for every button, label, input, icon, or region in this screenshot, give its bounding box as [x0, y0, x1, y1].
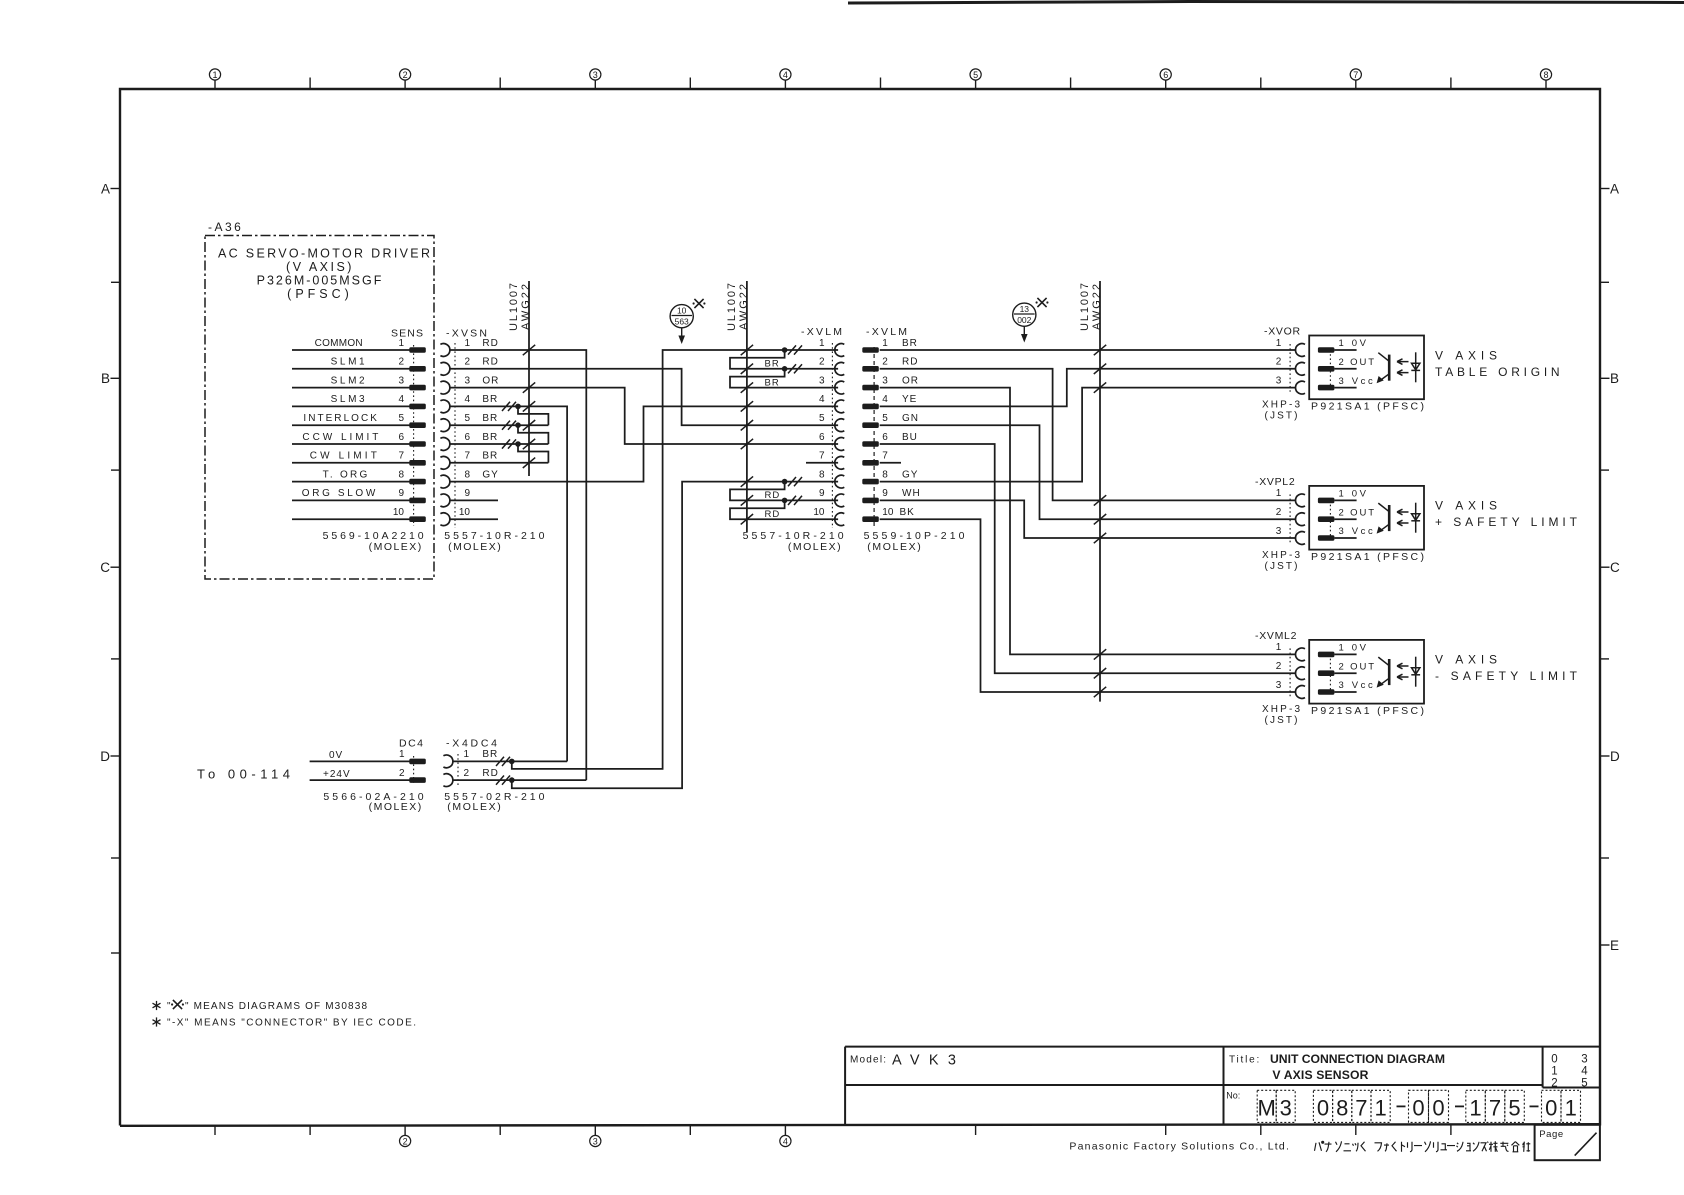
svg-text:0: 0 — [1545, 1096, 1557, 1121]
bottom border tick marks — [215, 1126, 1451, 1136]
svg-text:BK: BK — [900, 507, 915, 518]
svg-text:D: D — [1610, 749, 1620, 764]
-XVML2 body dotted line — [1289, 648, 1291, 698]
svg-text:8: 8 — [819, 469, 825, 480]
DC4 pin 1 contact bar — [409, 759, 426, 765]
left grid label C — [100, 560, 120, 575]
sensor -XVOR light arrows — [1397, 359, 1409, 376]
svg-text:GY: GY — [902, 469, 918, 480]
svg-text:10: 10 — [677, 306, 687, 316]
svg-text:3 Vcc: 3 Vcc — [1339, 680, 1374, 691]
DC4 0V wire — [310, 760, 410, 762]
svg-text:1: 1 — [1276, 488, 1282, 499]
sensor -XVPL2 pin 2 bar and stub — [1318, 516, 1335, 522]
cable label UL1007 AWG22 #3 — [1079, 283, 1103, 331]
svg-text:2: 2 — [403, 1136, 408, 1146]
reference mark ※ #2 — [1036, 298, 1049, 307]
svg-text:No:: No: — [1226, 1091, 1240, 1101]
svg-text:AWG22: AWG22 — [1091, 284, 1103, 330]
svg-text:7: 7 — [464, 451, 470, 462]
stub wire XVSN-9 — [450, 499, 498, 501]
svg-text:7: 7 — [1353, 70, 1358, 80]
svg-text:A: A — [101, 181, 110, 196]
svg-text:8: 8 — [398, 469, 404, 480]
wire XVSN-7 BR — [450, 462, 549, 464]
svg-text:BR: BR — [482, 451, 498, 462]
-XVLM plug pin 8 contact bar — [862, 479, 879, 485]
svg-text:P921SA1 (PFSC): P921SA1 (PFSC) — [1311, 705, 1424, 717]
SENS pin 1 signal wire — [292, 349, 410, 351]
-XVOR connector type XHP-3 (JST) — [1262, 399, 1300, 421]
stub wire XVLM-7 plug — [880, 462, 901, 464]
svg-text:563: 563 — [675, 317, 689, 327]
jumper hook XVLM 9-10 RD — [730, 500, 838, 519]
-XVLM receptacle pin 6 arc — [835, 438, 844, 451]
page box — [1535, 1125, 1600, 1160]
svg-text:3: 3 — [593, 70, 598, 80]
scan artifact line top edge — [848, 2, 1684, 4]
svg-text:3: 3 — [819, 375, 825, 386]
svg-text:1: 1 — [1374, 1096, 1386, 1121]
svg-text:SENS: SENS — [391, 328, 423, 340]
svg-text:0V: 0V — [329, 750, 343, 761]
svg-text:4: 4 — [1581, 1066, 1588, 1078]
drawing number dash 2 — [1455, 1105, 1464, 1107]
-XVML2 pin 2 receptacle arc — [1296, 667, 1305, 680]
sensor -XVML2 body dotted line — [1329, 654, 1331, 692]
company name japanese (drawn strokes) — [1315, 1141, 1531, 1152]
jumper hook XVSN 4-5 — [518, 406, 548, 425]
svg-text:9: 9 — [398, 488, 404, 499]
sensor -XVOR pin 3 bar and stub — [1318, 385, 1335, 391]
sensor -XVML2 pin labels 0V OUT Vcc — [1339, 643, 1375, 692]
top grid label circled 4 — [780, 69, 791, 80]
svg-text:AWG22: AWG22 — [520, 284, 532, 330]
svg-text:XHP-3: XHP-3 — [1262, 399, 1300, 410]
wire XVSN-3 OR to XVLM-6 — [450, 388, 838, 444]
reference balloon 13/002 with arrow — [1013, 303, 1036, 342]
driver block AC SERVO-MOTOR DRIVER dash-dot box — [205, 236, 434, 580]
note reference mark glyph — [171, 1000, 184, 1009]
-XVOR pin 1 receptacle arc — [1296, 344, 1305, 357]
right grid label B — [1600, 371, 1619, 386]
svg-text:(MOLEX): (MOLEX) — [788, 541, 841, 553]
svg-text:6: 6 — [398, 432, 404, 443]
svg-text:002: 002 — [1017, 315, 1031, 325]
svg-text:4: 4 — [819, 394, 825, 405]
svg-text:P921SA1 (PFSC): P921SA1 (PFSC) — [1311, 551, 1424, 563]
svg-text:T. ORG: T. ORG — [323, 469, 368, 480]
SENS pin 9 signal wire — [292, 499, 410, 501]
driver block title text — [218, 247, 430, 302]
svg-text:5: 5 — [819, 413, 825, 424]
-XVSN connector body dotted line — [454, 343, 456, 528]
svg-text:XHP-3: XHP-3 — [1262, 704, 1300, 715]
svg-text:2: 2 — [819, 357, 825, 368]
svg-text:CW LIMIT: CW LIMIT — [310, 451, 377, 462]
-XVPL2 pin 3 receptacle arc — [1296, 532, 1305, 545]
svg-text:9: 9 — [464, 488, 470, 499]
svg-text:BR: BR — [482, 432, 498, 443]
svg-text:4: 4 — [398, 394, 404, 405]
drawing number 00 cells — [1409, 1090, 1449, 1122]
jumper hook XVLM 1-2 BR — [730, 350, 838, 369]
sensor -XVPL2 body dotted line — [1329, 500, 1331, 538]
-X4DC4 pin 1 number and color BR — [463, 749, 498, 760]
svg-text:8: 8 — [882, 469, 888, 480]
svg-text:1: 1 — [1276, 338, 1282, 349]
top border tick marks — [215, 78, 1546, 90]
wire XVLM-4 YE to XVOR-2 — [880, 369, 1296, 407]
svg-text:To 00-114: To 00-114 — [197, 767, 290, 782]
sensor -XVPL2 pin 3 bar and stub — [1318, 535, 1335, 541]
-XVLM receptacle pin 1 arc — [835, 344, 844, 357]
sensor -XVML2 phototransistor — [1377, 657, 1390, 688]
left grid label B — [101, 371, 120, 386]
svg-text:3 Vcc: 3 Vcc — [1339, 526, 1374, 537]
svg-text:" MEANS DIAGRAMS OF M30838: " MEANS DIAGRAMS OF M30838 — [185, 1001, 367, 1012]
svg-text:SLM3: SLM3 — [331, 394, 365, 405]
svg-text:RD: RD — [765, 509, 781, 520]
svg-text:RD: RD — [482, 338, 498, 349]
svg-text:(MOLEX): (MOLEX) — [369, 541, 422, 553]
svg-text:": " — [167, 1001, 171, 1012]
svg-text:1: 1 — [882, 338, 888, 349]
wire 0V rail to XVLM-1 — [512, 350, 838, 769]
svg-text:A: A — [1610, 181, 1619, 196]
title block outline — [845, 1047, 1600, 1125]
svg-text:-XVLM: -XVLM — [866, 326, 907, 338]
right grid label C — [1600, 560, 1620, 575]
svg-text:1 0V: 1 0V — [1339, 338, 1367, 349]
-XVLM receptacle pin 3 arc — [835, 381, 844, 394]
sensor -XVPL2 phototransistor — [1377, 503, 1390, 533]
svg-text:9: 9 — [882, 488, 888, 499]
svg-text:Page: Page — [1539, 1129, 1564, 1140]
sensor -XVML2 light arrows — [1397, 663, 1409, 680]
wire XVLM-2 RD to XVPL2-1 — [880, 369, 1296, 501]
-XVSN pin 10 receptacle arc — [440, 513, 449, 526]
wire XVSN-5 BR — [450, 424, 549, 426]
cable bundle line UL1007 AWG22 #1 — [528, 281, 530, 476]
SENS pin 3 signal wire — [292, 387, 410, 389]
SENS pin 2 signal wire — [292, 368, 410, 370]
cable label UL1007 AWG22 #2 — [726, 283, 750, 331]
svg-text:0: 0 — [1412, 1096, 1424, 1121]
SENS part number 5569-10A2210 (MOLEX) — [323, 530, 424, 553]
svg-text:3: 3 — [1276, 526, 1282, 537]
svg-text:RD: RD — [902, 357, 918, 368]
sensor -XVPL2 function text — [1435, 499, 1578, 530]
svg-text:3: 3 — [1280, 1096, 1292, 1121]
-XVLM plug pin 5 contact bar — [862, 422, 879, 428]
SENS pin 7 signal wire — [292, 462, 410, 464]
svg-text:D: D — [100, 749, 110, 764]
-X4DC4 pin 2 number and color RD — [463, 768, 498, 779]
right grid label D — [1600, 749, 1620, 764]
svg-text:6: 6 — [1163, 70, 1168, 80]
SENS pin 6 contact bar — [409, 441, 426, 447]
cable #2 crossing slashes — [741, 345, 753, 525]
-XVSN pin 2 receptacle arc — [440, 362, 449, 375]
wire XVLM-1 BR to XVOR-1 — [880, 349, 1296, 351]
SENS pin 6 signal wire — [292, 443, 410, 445]
-X4DC4 pin 1 arc — [443, 755, 452, 768]
SENS pin 3 contact bar — [409, 385, 426, 391]
svg-text:1 0V: 1 0V — [1339, 489, 1367, 500]
svg-text:6: 6 — [819, 432, 825, 443]
sensor -XVML2 pin 1 bar and stub — [1318, 652, 1335, 658]
left border mid ticks — [111, 282, 120, 953]
svg-text:(MOLEX): (MOLEX) — [369, 801, 422, 813]
jumper hook XVSN 6-7 — [518, 444, 548, 463]
svg-text:8: 8 — [1543, 70, 1548, 80]
svg-text:9: 9 — [819, 488, 825, 499]
svg-text:C: C — [1610, 560, 1620, 575]
-XVSN pin 5 receptacle arc — [440, 419, 449, 432]
drawing number 175 cells — [1466, 1090, 1525, 1122]
-XVLM plug pin 9 contact bar — [862, 498, 879, 504]
svg-text:2: 2 — [882, 357, 888, 368]
svg-text:BR: BR — [482, 413, 498, 424]
svg-text:RD: RD — [765, 490, 781, 501]
-XVSN pin 3 receptacle arc — [440, 381, 449, 394]
svg-text:P921SA1 (PFSC): P921SA1 (PFSC) — [1311, 401, 1424, 413]
svg-text:(V AXIS): (V AXIS) — [286, 260, 354, 274]
svg-text:(MOLEX): (MOLEX) — [448, 541, 501, 553]
svg-text:1: 1 — [398, 338, 404, 349]
-X4DC4 pin 2 wire RD — [453, 779, 586, 781]
svg-text:1 0V: 1 0V — [1339, 643, 1367, 654]
-XVLM receptacle pin 5 arc — [835, 419, 844, 432]
left grid label A — [101, 181, 120, 196]
wire +24V rail to XVLM-8 — [512, 482, 838, 789]
-XVPL2 pin 2 receptacle arc — [1296, 513, 1305, 526]
svg-text:SLM1: SLM1 — [331, 357, 365, 368]
svg-text:2: 2 — [464, 357, 470, 368]
svg-text:1: 1 — [399, 749, 405, 760]
drawing number 0871 cells — [1313, 1090, 1390, 1122]
top grid label circled 2 — [400, 69, 411, 80]
svg-text:3 Vcc: 3 Vcc — [1339, 376, 1374, 387]
svg-text:0: 0 — [1317, 1096, 1329, 1121]
reference mark ※ #1 — [693, 299, 706, 308]
right border mid ticks — [1600, 282, 1609, 858]
-XVSN part number 5557-10R-210 (MOLEX) — [444, 530, 544, 553]
DC4 pin 2 contact bar — [409, 777, 426, 783]
stub wire XVLM-7 — [806, 462, 838, 464]
svg-text:BR: BR — [902, 338, 918, 349]
-XVSN pin 1 receptacle arc — [440, 344, 449, 357]
svg-text:5: 5 — [464, 413, 470, 424]
svg-text:(PFSC): (PFSC) — [287, 287, 353, 301]
svg-text:0: 0 — [1432, 1096, 1444, 1121]
sensor -XVML2 LED — [1411, 657, 1420, 687]
sensor box -XVOR P921SA1 outline — [1309, 336, 1424, 400]
svg-text:SLM2: SLM2 — [331, 375, 365, 386]
sensor box -XVML2 P921SA1 outline — [1309, 640, 1424, 704]
svg-text:-A36: -A36 — [208, 220, 243, 234]
svg-text:2: 2 — [403, 70, 408, 80]
svg-text:XHP-3: XHP-3 — [1262, 550, 1300, 561]
svg-text:2: 2 — [1276, 507, 1282, 518]
top grid label circled 6 — [1160, 69, 1171, 80]
wire XVSN-1 RD to +24V rail — [450, 350, 587, 780]
svg-text:2: 2 — [1276, 661, 1282, 672]
svg-text:3: 3 — [882, 375, 888, 386]
svg-text:GN: GN — [902, 413, 919, 424]
revision digits box — [1551, 1054, 1588, 1090]
sensor -XVPL2 LED — [1411, 503, 1420, 533]
svg-text:DC4: DC4 — [399, 738, 423, 750]
svg-text:BR: BR — [765, 359, 780, 370]
drawing number M3 cells — [1257, 1090, 1295, 1122]
-XVML2 pin 3 receptacle arc — [1296, 686, 1305, 699]
svg-text:OR: OR — [902, 375, 919, 386]
cable #1 crossing slashes — [523, 345, 535, 468]
SENS pin 4 contact bar — [409, 404, 426, 410]
svg-text:AWG22: AWG22 — [738, 284, 750, 330]
wire XVLM-10 BK to XVML2-3 — [880, 519, 1296, 692]
jumper hook XVLM 8-9 RD — [730, 482, 838, 501]
-XVLM plug pin 7 contact bar — [862, 460, 879, 466]
svg-text:+ SAFETY LIMIT: + SAFETY LIMIT — [1435, 515, 1578, 529]
wire XVSN-2 RD to XVLM-5 — [450, 369, 838, 425]
svg-text:2: 2 — [398, 357, 404, 368]
sensor -XVPL2 pin labels 0V OUT Vcc — [1339, 489, 1375, 538]
svg-text:1: 1 — [463, 749, 469, 760]
svg-text:Title:: Title: — [1229, 1055, 1261, 1066]
svg-text:1: 1 — [1469, 1096, 1481, 1121]
SENS pin 5 contact bar — [409, 422, 426, 428]
svg-text:7: 7 — [1355, 1096, 1367, 1121]
-XVSN pin 6 receptacle arc — [440, 438, 449, 451]
SENS pin 9 contact bar — [409, 498, 426, 504]
svg-text:B: B — [1610, 371, 1619, 386]
-X4DC4 part number 5557-02R-210 (MOLEX) — [444, 791, 544, 813]
-XVPL2 connector type XHP-3 (JST) — [1262, 550, 1300, 572]
svg-text:1: 1 — [819, 338, 825, 349]
svg-text:1: 1 — [1551, 1066, 1557, 1078]
-XVLM receptacle pin 2 arc — [835, 362, 844, 375]
note asterisk line 2 — [153, 1017, 417, 1028]
cable tie marks XVLM rows — [788, 345, 802, 505]
SENS pin 8 signal wire — [292, 481, 410, 483]
drawing frame border — [120, 89, 1600, 1126]
-XVLM plug pin 10 contact bar — [862, 516, 879, 522]
svg-text:BR: BR — [482, 394, 498, 405]
sensor -XVML2 function text — [1435, 653, 1578, 684]
wire XVLM-6 BU to XVML2-2 — [880, 444, 1296, 673]
junction dots X4DC4 — [509, 759, 515, 783]
SENS pin 8 contact bar — [409, 479, 426, 485]
svg-text:5: 5 — [398, 413, 404, 424]
-XVOR pin 2 receptacle arc — [1296, 362, 1305, 375]
junction dots XVSN hooks — [515, 404, 521, 447]
svg-text:4: 4 — [783, 1136, 788, 1146]
sensor -XVPL2 light arrows — [1397, 509, 1409, 526]
sensor -XVML2 pin 2 bar and stub — [1318, 670, 1335, 676]
-XVOR body dotted line — [1289, 344, 1291, 394]
SENS pin 7 contact bar — [409, 460, 426, 466]
-XVLM plug pin 1 contact bar — [862, 347, 879, 353]
svg-text:BR: BR — [765, 377, 780, 388]
sensor -XVOR phototransistor — [1377, 353, 1390, 384]
svg-text:7: 7 — [398, 451, 404, 462]
wire XVSN-8 GY to XVLM-4 — [450, 406, 838, 481]
DC4 part number 5566-02A-210 (MOLEX) — [323, 791, 423, 813]
drawing number dash 1 — [1397, 1105, 1406, 1107]
svg-text:-XVPL2: -XVPL2 — [1255, 476, 1295, 488]
svg-text:3: 3 — [1276, 375, 1282, 386]
-X4DC4 pin 1 wire BR — [453, 760, 567, 762]
page slash — [1575, 1133, 1597, 1156]
cable bundle line UL1007 AWG22 #3 — [1099, 281, 1101, 702]
svg-text:10: 10 — [393, 507, 405, 518]
-XVSN pin 4 receptacle arc — [440, 400, 449, 413]
svg-text:1: 1 — [1565, 1096, 1577, 1121]
-XVML2 pin 1 receptacle arc — [1296, 648, 1305, 661]
cable tie marks X4DC4 — [496, 757, 510, 785]
-XVLM plug pin 6 contact bar — [862, 441, 879, 447]
-XVLM plug pin 2 contact bar — [862, 366, 879, 372]
svg-text:6: 6 — [882, 432, 888, 443]
-XVML2 connector type XHP-3 (JST) — [1262, 704, 1300, 726]
svg-text:7: 7 — [1489, 1096, 1501, 1121]
svg-text:COMMON: COMMON — [315, 338, 363, 349]
svg-text:(MOLEX): (MOLEX) — [447, 801, 500, 813]
-XVSN pin 7 receptacle arc — [440, 456, 449, 469]
svg-text:"-X" MEANS "CONNECTOR" BY IEC: "-X" MEANS "CONNECTOR" BY IEC CODE. — [167, 1018, 416, 1029]
svg-text:4: 4 — [783, 70, 788, 80]
svg-text:10: 10 — [813, 507, 825, 518]
svg-text:-XVLM: -XVLM — [801, 326, 842, 338]
right grid label A — [1600, 181, 1619, 196]
svg-text:3: 3 — [1276, 680, 1282, 691]
jumper hook XVSN 5-6 — [518, 425, 548, 444]
top grid label circled 1 — [209, 69, 220, 80]
wire XVLM-3 OR to XVML2-1 — [880, 388, 1296, 655]
svg-text:8: 8 — [1336, 1096, 1348, 1121]
sensor -XVML2 pin 3 bar and stub — [1318, 689, 1335, 695]
svg-text:(MOLEX): (MOLEX) — [867, 541, 920, 553]
svg-text:P326M-005MSGF: P326M-005MSGF — [257, 274, 384, 288]
wire XVLM-9 WH to XVPL2-3 — [880, 500, 1296, 538]
svg-text:+24V: +24V — [323, 769, 351, 780]
-XVLM receptacle pin 7 arc — [835, 456, 844, 469]
jumper hook XVLM 2-3 BR — [730, 369, 838, 388]
svg-text:1: 1 — [212, 70, 217, 80]
svg-text:3: 3 — [464, 375, 470, 386]
svg-text:Model:: Model: — [850, 1055, 887, 1066]
DC4 body dotted line — [413, 756, 415, 785]
-XVPL2 body dotted line — [1289, 494, 1291, 544]
-XVLM plug pin 4 contact bar — [862, 404, 879, 410]
svg-text:V AXIS SENSOR: V AXIS SENSOR — [1272, 1068, 1368, 1082]
sensor -XVPL2 pin 1 bar and stub — [1318, 498, 1335, 504]
cable label UL1007 AWG22 #1 — [508, 283, 532, 331]
svg-text:3: 3 — [593, 1136, 598, 1146]
cable tie marks XVSN rows 4-6 — [502, 402, 516, 449]
svg-text:10: 10 — [882, 507, 894, 518]
svg-text:2: 2 — [1551, 1078, 1557, 1090]
-XVOR pin 3 receptacle arc — [1296, 381, 1305, 394]
svg-text:INTERLOCK: INTERLOCK — [303, 413, 377, 424]
DC4 +24V wire — [310, 779, 410, 781]
sensor box -XVPL2 P921SA1 outline — [1309, 486, 1424, 550]
-XVLM plug pin 3 contact bar — [862, 385, 879, 391]
drawing number 01 cells — [1542, 1090, 1581, 1122]
